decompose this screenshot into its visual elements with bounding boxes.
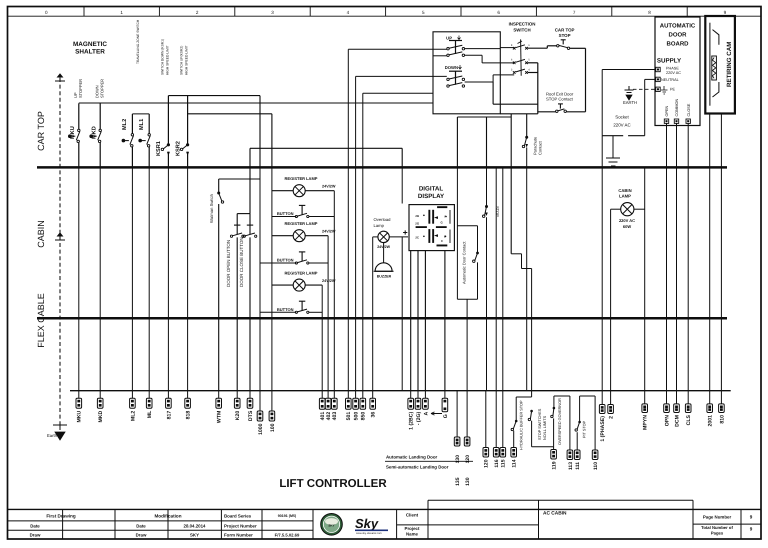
wire inspection bypass [492,82,494,104]
svg-text:Pages: Pages [711,531,724,536]
wire DCM riser [676,123,678,167]
display bottom wires [410,251,412,391]
terminal 402 [327,391,329,399]
svg-text:24V/2W: 24V/2W [322,230,336,234]
svg-text:Semi-automatic Landing Door: Semi-automatic Landing Door [386,464,449,469]
button 1 switch [295,215,297,217]
svg-text:Earth: Earth [47,433,58,438]
retiring cam box [705,16,735,114]
title block column 221.4 [220,509,222,539]
register lamp 2 [293,230,305,242]
svg-text:C: C [441,239,443,243]
svg-text:INSPECTION: INSPECTION [509,22,536,27]
svg-text:HIGH SPEED LIMIT: HIGH SPEED LIMIT [166,45,170,75]
svg-text:MAGNETIC: MAGNETIC [73,41,107,48]
button 3 row wire [260,311,296,313]
wire OPN riser [666,123,668,167]
svg-text:6: 6 [511,59,513,62]
svg-text:120: 120 [465,455,471,464]
button 3 switch [295,311,297,313]
wire down-left riser [355,76,357,167]
wire stop down [486,217,488,391]
svg-text:9: 9 [724,10,727,15]
overload lamp [378,231,389,242]
wire OPN cabin [666,167,668,390]
svg-text:100: 100 [270,423,276,432]
title block column 396.6 [396,509,398,539]
svg-text:CLS: CLS [686,414,692,425]
terminal 1000 [259,391,261,411]
terminal 818 [187,391,189,399]
switch DOWN (inspection) [449,70,462,72]
digital display box [409,205,454,251]
svg-text:Draw: Draw [136,533,147,538]
svg-text:STOP SWITCHES: STOP SWITCHES [538,408,542,440]
parachute wire through cabin [526,167,528,390]
svg-text:2: 2 [196,10,199,15]
terminal 120/130 [466,391,468,437]
svg-text:BUZZER: BUZZER [377,275,392,279]
door buttons bridge [237,213,250,215]
svg-text:STOPPER: STOPPER [100,79,105,98]
svg-text:DOOR OPEN BUTTON: DOOR OPEN BUTTON [226,240,231,287]
wire 810 cabin [720,167,722,390]
svg-text:DOOR: DOOR [669,32,688,39]
terminal 113 [567,450,573,460]
svg-text:130: 130 [465,477,471,486]
register lamp 3 [293,279,305,291]
terminal MPYN [644,391,646,404]
svg-text:ML2: ML2 [122,119,128,130]
wire ML2 cabin [131,167,133,390]
wire CLS riser [687,123,689,167]
earth ground symbol bottom [53,425,67,430]
wire 116 cabin [495,167,497,390]
ruler divider 2 [158,7,160,17]
svg-text:CABIN: CABIN [36,220,46,248]
svg-text:850: 850 [361,412,367,421]
ruler divider 9 [686,7,688,17]
svg-text:119: 119 [552,461,558,469]
wire w500 cabin [355,167,357,390]
ruler divider 8 [611,7,613,17]
wire 1 PHASE cabin [601,167,603,390]
svg-text:9: 9 [750,527,753,532]
wire CLS cabin [687,167,689,390]
cabin chassis earth tick [55,233,65,240]
svg-text:110: 110 [593,462,599,470]
switch MKU [78,103,80,129]
svg-text:MKU: MKU [70,126,76,139]
svg-text:STOP: STOP [559,33,571,38]
svg-text:Name: Name [406,532,419,537]
svg-text:BOARD: BOARD [667,41,690,48]
svg-text:36: 36 [371,412,377,418]
wire w501 cabin [347,167,349,390]
terminal 111 [574,450,580,460]
chain bridge 2 [554,395,570,397]
svg-text:6: 6 [497,10,500,15]
switch MKD [99,103,101,129]
title block outline [8,508,762,510]
svg-text:PIT STOP: PIT STOP [583,420,587,438]
wire 115 cabin [502,167,504,390]
ruler divider 5 [385,7,387,17]
svg-text:1: 1 [120,10,123,15]
stop switches NO LL switch [528,418,530,420]
terminal 130/135 [456,391,458,437]
wire 35 drop [372,237,374,391]
socket ground [606,158,620,166]
terminal ML [148,391,150,399]
switch ML1 [148,114,150,134]
wire up pole1 to inspection [465,48,501,50]
register lamp 3 row wire [272,284,293,286]
wire up-left exit [348,48,447,50]
svg-text:24V/2W: 24V/2W [322,279,336,283]
terminal 120 [485,391,487,448]
svg-text:1000: 1000 [258,423,264,435]
socket symbol [602,135,623,137]
earth dashed line [59,78,61,425]
automatic door board box [655,17,700,126]
page number rows divider [693,523,761,525]
automatic door contact switch [473,260,475,262]
svg-text:SWITCH DOWN (KSR1): SWITCH DOWN (KSR1) [161,39,165,75]
svg-text:EARTH: EARTH [623,100,637,105]
svg-text:Project: Project [405,526,420,531]
svg-text:LIFT CONTROLLER: LIFT CONTROLLER [279,478,387,490]
svg-text:MKD: MKD [98,410,104,422]
svg-text:220V AC: 220V AC [666,71,681,75]
svg-text:2B: 2B [415,214,419,218]
svg-text:COMMON: COMMON [675,99,679,117]
wire 2001 cabin [709,167,711,390]
button 2 switch [295,262,297,264]
svg-text:5: 5 [528,59,530,62]
svg-text:OVERSPEED GOVERNOR: OVERSPEED GOVERNOR [558,398,562,445]
svg-text:OPN: OPN [664,415,670,426]
wire rail ML [132,113,149,115]
svg-text:MKU: MKU [77,410,83,422]
wire door close drop [249,237,251,390]
svg-text:PHASE: PHASE [666,66,679,70]
svg-text:Lamp: Lamp [374,223,385,228]
wire 818 cabin [187,167,189,390]
svg-text:Date: Date [136,524,146,529]
wire rail car-top C [188,113,272,115]
wire phase riser [601,70,603,136]
svg-text:SUPPLY: SUPPLY [657,58,682,65]
stop switch cabin [485,205,488,208]
svg-text:OPEN: OPEN [665,105,669,116]
svg-text:1 (2BC): 1 (2BC) [409,411,415,429]
terminal DTS [249,391,251,399]
ac cabin cell top extension [428,499,693,501]
svg-text:817: 817 [166,411,172,420]
svg-text:130: 130 [455,455,461,464]
retiring cam coil [712,56,717,80]
buzzer wire [383,243,385,263]
svg-text:ML: ML [147,410,153,418]
title block column 313 [312,509,314,539]
terminal K20 [236,391,238,399]
terminal PHASE [656,67,660,71]
wire MKU cabin [78,167,80,390]
svg-text:REGISTER LAMP: REGISTER LAMP [285,176,318,181]
terminal 401 [321,391,323,399]
wire phase from board [602,69,656,71]
wire junction rail [457,116,511,118]
wire junction risers [486,117,488,167]
svg-text:Date: Date [30,524,40,529]
title block column 62.6 [62,509,64,539]
svg-text:4: 4 [528,68,530,71]
svg-text:Modification: Modification [154,514,181,519]
title block column 115 [114,509,116,539]
switch UP (inspection) [449,40,462,42]
wire retiring cam 810 [720,114,722,168]
wire 817 cabin [167,167,169,390]
buzzer [375,263,392,272]
svg-text:G: G [443,414,449,418]
junction plus overload [403,230,407,234]
logo circle [321,514,343,536]
terminal CLS [687,391,689,404]
svg-text:F/7.5.5.02.69: F/7.5.5.02.69 [275,533,300,538]
terminal 2 [610,391,612,405]
svg-text:UP: UP [446,36,452,41]
svg-text:Page Number: Page Number [703,515,732,520]
svg-text:2: 2 [609,416,615,419]
terminal 1 (2BC) [410,391,412,399]
terminal 810 [720,391,722,404]
svg-text:NEUTRAL: NEUTRAL [661,78,679,82]
button 1 row wire [272,216,296,218]
roof exit door stop contact switch [556,110,558,112]
svg-text:1: 1 [528,44,530,47]
ruler divider 1 [83,7,85,17]
wire 1 phase down [601,136,603,168]
svg-text:DOOR CLOSE BUTTON: DOOR CLOSE BUTTON [239,237,244,287]
terminal 817 [167,391,169,399]
svg-text:REGISTER LAMP: REGISTER LAMP [285,271,318,276]
svg-text:Board Series: Board Series [224,514,252,519]
svg-text:113: 113 [568,462,574,470]
svg-text:0: 0 [45,10,48,15]
parachute contact switch [525,136,528,139]
wire up-left riser [347,49,349,167]
inspection up/down box [433,32,500,114]
svg-text:8: 8 [511,44,513,47]
svg-text:500: 500 [354,412,360,421]
svg-text:403: 403 [332,412,338,421]
svg-text:STOPPER: STOPPER [78,79,83,98]
svg-text:ML1: ML1 [139,119,145,130]
wire 100 cabin [271,167,273,390]
register lamp 1 [293,185,305,197]
svg-text:SKY: SKY [190,533,199,538]
wire register group 3 riser [321,285,323,391]
wire rail car-top A [79,102,433,104]
svg-text:SWITCH UP(KSR2): SWITCH UP(KSR2) [180,46,184,75]
inspection switch contacts [513,47,516,50]
svg-text:BUTTON: BUTTON [277,258,294,263]
svg-text:CABIN: CABIN [618,188,631,193]
overload lamp wires [373,236,378,238]
svg-text:CAR TOP: CAR TOP [555,28,575,33]
svg-text:115: 115 [501,459,507,467]
automatic door contact loop [457,225,477,227]
svg-text:114: 114 [512,459,518,467]
svg-text:Draw: Draw [30,533,41,538]
svg-text:- (2G): - (2G) [416,411,422,425]
svg-text:3: 3 [271,10,274,15]
wire down-left exit [356,75,447,77]
wire DCM cabin [676,167,678,390]
svg-text:810: 810 [719,415,725,424]
svg-text:LAMP: LAMP [619,194,631,199]
terminal G [444,391,446,399]
wire w850 cabin [362,167,364,390]
svg-text:220V AC: 220V AC [619,218,635,223]
title block column 693 [692,509,694,539]
svg-text:www.sky-elevator.com: www.sky-elevator.com [356,532,382,535]
svg-text:9: 9 [750,515,753,520]
chain bridge 1 [515,397,517,421]
svg-text:7: 7 [573,10,576,15]
button 2 row wire [260,262,296,264]
svg-text:Project Number: Project Number [224,524,257,529]
register lamp 2 row wire [272,235,293,237]
svg-text:Overload: Overload [374,217,392,222]
wire ML1 cabin [148,167,150,390]
wire mid drop [401,167,403,203]
svg-text:A: A [423,411,429,415]
svg-text:Total Number of: Total Number of [701,525,733,530]
svg-text:Socket: Socket [615,115,629,120]
terminal 501 [347,391,349,399]
terminal DCM [676,391,678,404]
terminal 100 [271,391,273,411]
svg-text:DCM: DCM [674,415,680,427]
chain bridge 3 [579,396,581,422]
svg-text:1 (PHASE): 1 (PHASE) [600,416,606,442]
door close button switch [243,235,245,237]
svg-text:8: 8 [648,10,651,15]
svg-text:818: 818 [186,411,192,420]
wire rail D riser right [401,148,403,167]
wire inspection right riser [528,62,538,64]
wire neutral riser [644,79,646,135]
retiring cam mechanism [709,23,711,106]
svg-text:CLOSE: CLOSE [687,103,691,116]
svg-text:60W: 60W [623,224,631,229]
wire rail car-top B (KSR top) [168,95,260,97]
terminal 119 [551,450,557,460]
wire MKD cabin [99,167,101,390]
board bottom terminals OPEN COMMON CLOSE [664,119,668,123]
ruler divider 3 [234,7,236,17]
svg-text:SHALTER: SHALTER [75,49,105,56]
svg-text:RETIRING CAM: RETIRING CAM [726,42,733,87]
svg-text:K20: K20 [235,411,241,421]
svg-text:Contact: Contact [538,140,543,155]
svg-text:BUTTON: BUTTON [277,307,294,312]
svg-text:116: 116 [494,459,500,467]
cabin lamp wires [611,208,621,210]
cabin lamp [621,203,634,216]
svg-text:402: 402 [326,412,332,421]
svg-text:NO/LL LIMITS: NO/LL LIMITS [543,415,547,440]
ruler divider 7 [535,7,537,17]
svg-text:2G: 2G [415,222,419,226]
title block column 428 [427,509,429,539]
svg-text:90191 (M5): 90191 (M5) [278,514,297,518]
section divider CAR TOP / CABIN [37,166,727,169]
svg-text:DIGITAL: DIGITAL [419,186,444,193]
title block column 741 [740,509,742,539]
switch ML2 [131,114,133,134]
stepped wire to chain [510,114,512,254]
svg-text:3: 3 [511,68,513,71]
terminal 1 (PHASE) [601,391,603,405]
svg-text:120: 120 [484,459,490,468]
svg-text:FLEX CABLE: FLEX CABLE [36,293,46,348]
svg-text:PE: PE [670,88,676,92]
switch KSR1 [167,96,169,145]
wire roof exit left [538,111,556,113]
ruler band line [8,15,762,17]
svg-text:DISPLAY: DISPLAY [418,193,445,200]
svg-text:BUTTON: BUTTON [277,211,294,216]
svg-text:28.04.2014: 28.04.2014 [184,524,207,529]
dashed PE link [633,88,655,90]
door open button switch [230,235,232,237]
svg-text:TRAVELLING ZONE SWITCH: TRAVELLING ZONE SWITCH [136,19,140,64]
svg-text:Automatic Door Contact: Automatic Door Contact [462,241,467,284]
car top stop switch [557,45,559,47]
svg-text:HYDRAULIC BUFFER STOP: HYDRAULIC BUFFER STOP [520,400,524,450]
svg-text:2C: 2C [415,236,419,240]
wire down2-left riser [362,93,364,167]
wire 1000 cabin [259,167,261,390]
wire register group 1 riser [333,191,335,391]
svg-text:SKY: SKY [328,524,334,528]
terminal MKD [99,391,101,399]
terminal WTM [218,391,220,399]
svg-text:WTM: WTM [217,411,223,423]
wire rail D [250,147,402,149]
svg-text:REGISTER LAMP: REGISTER LAMP [285,221,318,226]
ruler divider 4 [309,7,311,17]
landing door divider line [385,460,473,462]
door contact bottom jog [457,298,477,300]
svg-text:AC CABIN: AC CABIN [543,511,567,517]
wire retiring cam 2001 [709,114,711,168]
terminal 115 [502,391,504,448]
terminal A [424,391,426,399]
svg-text:Client: Client [406,513,419,518]
svg-text:24V/2W: 24V/2W [322,185,336,189]
wire inspection row2 right to stop [528,47,548,49]
display segments [437,206,447,208]
wire door open drop [236,237,238,390]
svg-text:2001: 2001 [708,415,714,427]
svg-text:501: 501 [346,412,352,421]
title block column 168 [167,509,169,539]
watman switch [217,192,220,195]
